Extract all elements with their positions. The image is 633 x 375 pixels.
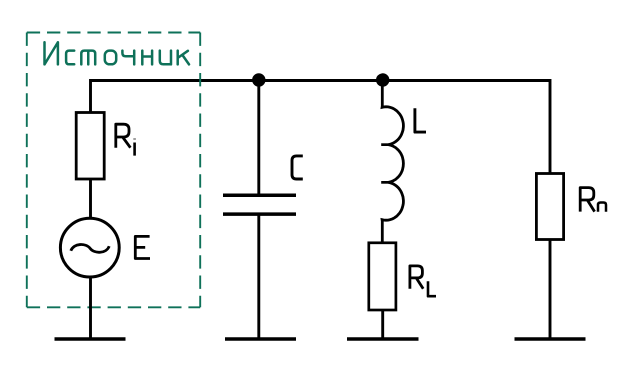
wire R_n to ground (549, 239, 552, 339)
node: junction dot L branch (376, 73, 389, 86)
label "Источник" (45, 42, 190, 64)
label R_n (580, 188, 606, 212)
coil junction tick 1 (381, 143, 389, 146)
coil junction tick 2 (381, 181, 389, 184)
label R_i (116, 124, 135, 155)
ground R_n branch (515, 337, 586, 340)
wire E to ground (89, 278, 92, 339)
source enclosure dashed box (27, 33, 200, 308)
label R_L (410, 266, 436, 296)
wire C to ground (257, 214, 260, 339)
resistor R_L (369, 243, 396, 310)
AC source sine (71, 245, 109, 253)
label C (292, 156, 303, 179)
capacitor C plates (223, 195, 296, 214)
wire R_i to E (89, 179, 92, 219)
wire C branch top (257, 80, 260, 195)
node: junction dot C branch (252, 73, 265, 86)
wire R_L to ground (381, 310, 384, 339)
label L (415, 108, 426, 132)
resistor R_i (76, 113, 104, 180)
ground C branch (225, 337, 296, 340)
inductor L coil with leads (382, 86, 403, 243)
label E (135, 236, 150, 258)
ground source branch (55, 337, 126, 340)
AC source E circle (60, 218, 119, 277)
ground R_L branch (347, 337, 419, 340)
wire: top bus with drops to Ri and Rn (91, 81, 551, 174)
resistor R_n (536, 174, 563, 240)
